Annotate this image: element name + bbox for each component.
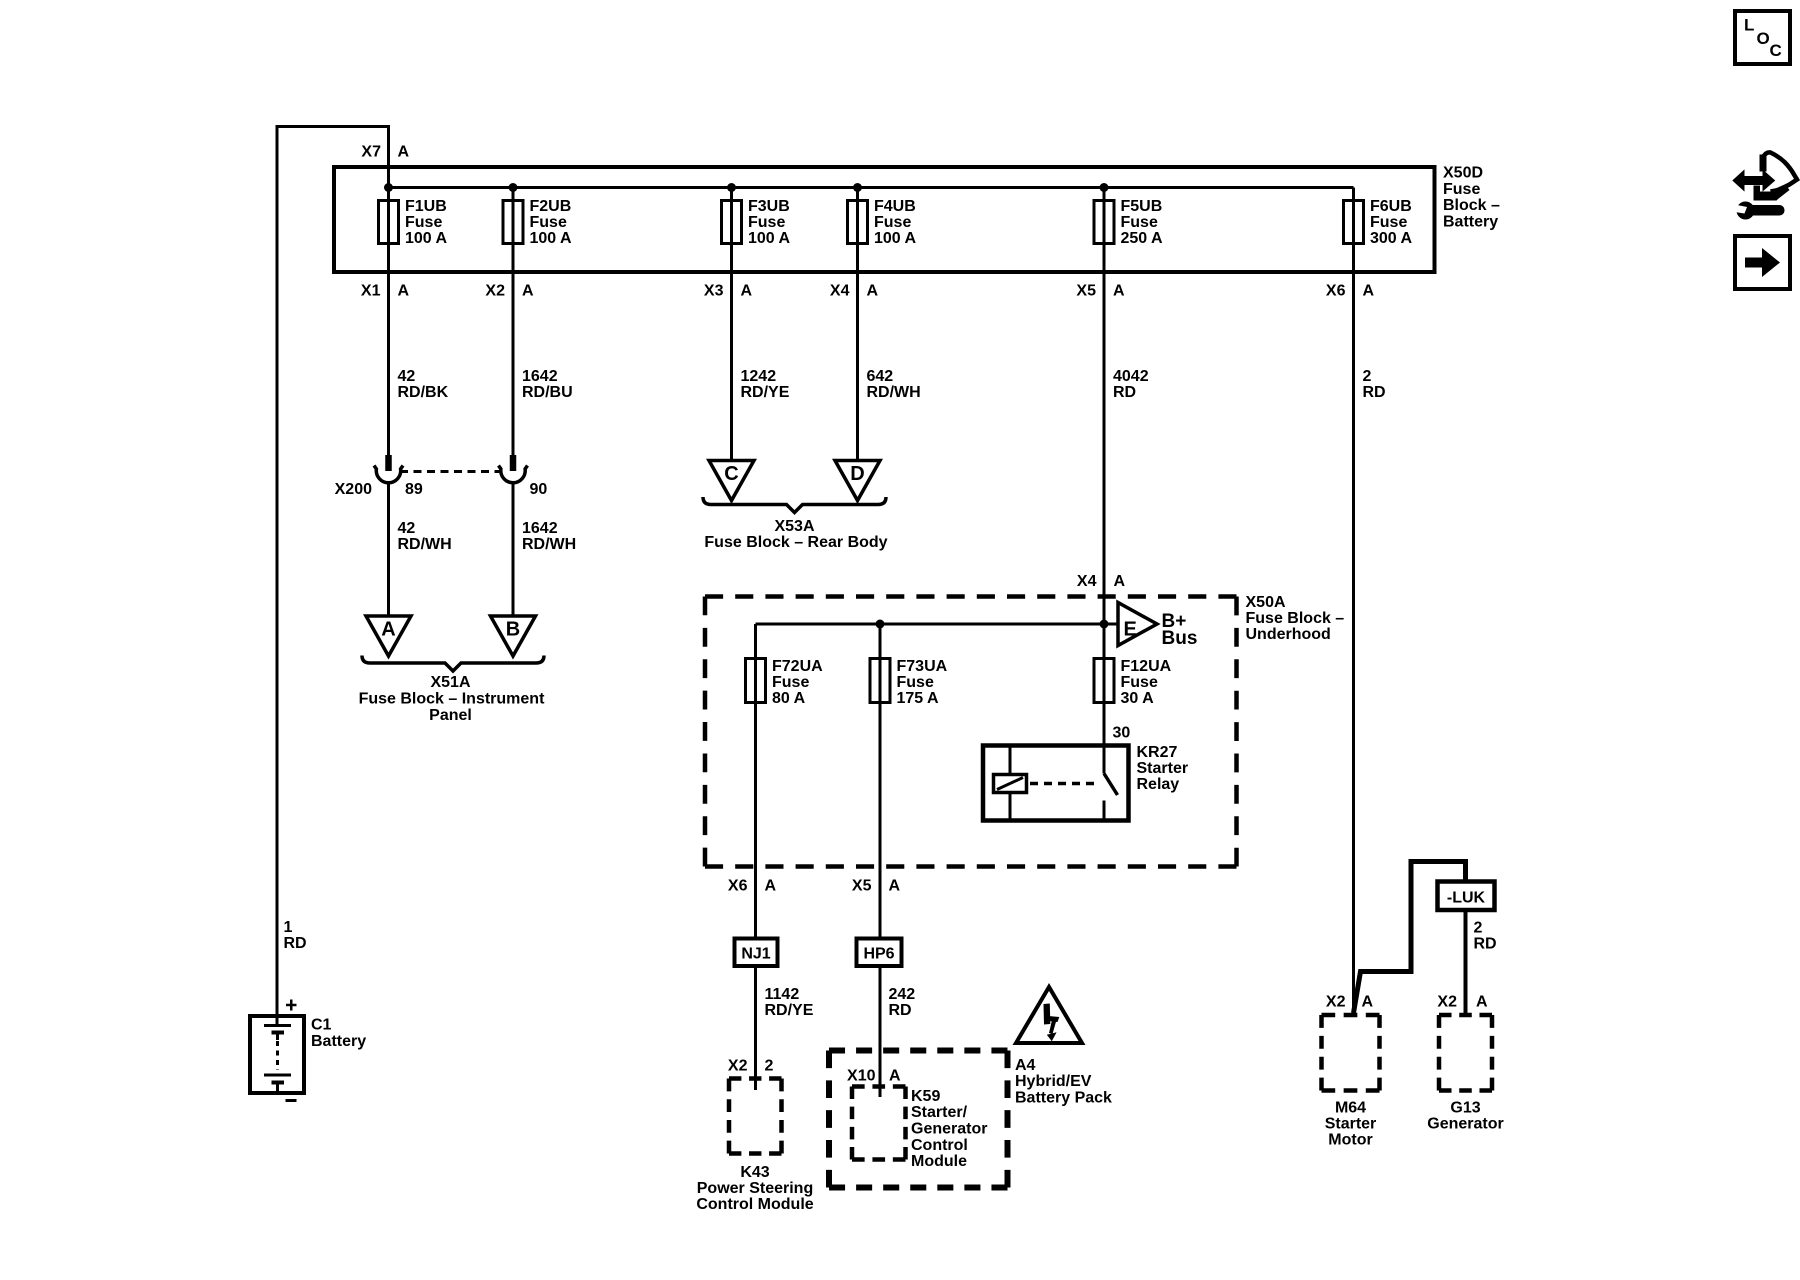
svg-text:Battery Pack: Battery Pack — [1015, 1090, 1112, 1107]
svg-text:E: E — [1124, 619, 1137, 641]
svg-text:Relay: Relay — [1137, 776, 1180, 793]
off-page triangle D — [835, 461, 880, 501]
off-page triangle C — [709, 461, 754, 501]
connector label X5 A below X50D — [1076, 283, 1125, 300]
label KR27 Starter Relay — [1137, 744, 1189, 793]
svg-text:42: 42 — [398, 520, 416, 537]
svg-text:NJ1: NJ1 — [741, 946, 770, 963]
fuse block X50A dashed outline — [705, 597, 1237, 867]
connector label X2 A above M64 — [1326, 994, 1374, 1011]
battery C1 cells — [264, 1026, 291, 1092]
fuse F5UB 250 A — [1094, 198, 1163, 247]
svg-text:X10: X10 — [847, 1068, 876, 1085]
svg-text:Fuse: Fuse — [897, 674, 934, 691]
connector label X10 A above K59 connector — [847, 1068, 901, 1085]
svg-text:642: 642 — [867, 368, 894, 385]
svg-text:RD/BU: RD/BU — [522, 384, 573, 401]
module K59 inner dashed box — [852, 1087, 906, 1160]
svg-text:Power Steering: Power Steering — [697, 1180, 813, 1197]
svg-text:1642: 1642 — [522, 520, 558, 537]
svg-text:100 A: 100 A — [405, 230, 448, 247]
fuse F3UB 100 A — [722, 198, 791, 247]
brace X51A — [362, 656, 544, 672]
wire battery feed: C1 + to X50D X7 — [277, 127, 389, 1026]
svg-text:F1UB: F1UB — [405, 198, 447, 215]
svg-text:RD: RD — [284, 935, 307, 952]
connector label X3 A below X50D — [704, 283, 753, 300]
svg-text:X6: X6 — [728, 878, 748, 895]
svg-text:1242: 1242 — [741, 368, 777, 385]
svg-text:K43: K43 — [740, 1164, 769, 1181]
svg-text:M64: M64 — [1335, 1100, 1366, 1117]
svg-text:O: O — [1757, 29, 1770, 48]
label A4 Hybrid/EV Battery Pack — [1015, 1057, 1112, 1107]
label X50D Fuse Block - Battery — [1443, 165, 1500, 231]
svg-text:Block –: Block – — [1443, 197, 1500, 214]
svg-text:X50A: X50A — [1246, 594, 1286, 611]
svg-text:-LUK: -LUK — [1447, 890, 1486, 907]
wire label 1142 RD/YE — [765, 986, 814, 1019]
svg-text:C1: C1 — [311, 1017, 332, 1034]
connector label X2 A below X50D — [485, 283, 534, 300]
label X200 89 90 — [335, 481, 548, 498]
icon LOC box — [1735, 11, 1790, 64]
brace X53A — [703, 497, 886, 513]
svg-text:L: L — [1744, 16, 1754, 35]
wire branch M64 to -LUK splice — [1354, 862, 1466, 1014]
svg-text:2: 2 — [765, 1058, 774, 1075]
svg-text:F6UB: F6UB — [1370, 198, 1412, 215]
svg-text:A: A — [398, 144, 410, 161]
module K43 dashed box — [729, 1079, 782, 1154]
svg-text:K59: K59 — [911, 1088, 940, 1105]
svg-text:Fuse: Fuse — [874, 214, 911, 231]
svg-text:Fuse: Fuse — [405, 214, 442, 231]
wire F6UB X6 output 2 RD to M64 starter motor — [1352, 188, 1355, 1017]
relay KR27 coil — [994, 748, 1027, 819]
svg-text:A: A — [1113, 283, 1125, 300]
svg-text:F2UB: F2UB — [530, 198, 572, 215]
svg-text:X2: X2 — [728, 1058, 748, 1075]
svg-text:100 A: 100 A — [874, 230, 917, 247]
svg-text:RD: RD — [889, 1002, 912, 1019]
svg-text:A: A — [1476, 994, 1488, 1011]
junction dot F5UB at bus — [1100, 183, 1109, 192]
svg-text:Panel: Panel — [429, 707, 472, 724]
wire F1UB X1 output 42 RD/BK — [387, 188, 390, 456]
svg-text:HP6: HP6 — [863, 946, 894, 963]
wire label 42 RD/WH — [398, 520, 452, 553]
svg-text:Fuse Block – Rear Body: Fuse Block – Rear Body — [704, 534, 887, 551]
junction dot F73UA at X50A bus — [876, 620, 885, 629]
svg-text:Fuse: Fuse — [1443, 181, 1480, 198]
wire F12UA drop to KR27 pin 30 — [1103, 624, 1106, 745]
wire F2UB X2 output 1642 RD/BU — [512, 188, 515, 456]
svg-text:X6: X6 — [1326, 283, 1346, 300]
connector label X6 A below X50D — [1326, 283, 1375, 300]
warning triangle A4 high voltage — [1016, 987, 1082, 1043]
fuse F72UA 80 A — [746, 658, 824, 707]
label K59 Starter/Generator Control Module — [911, 1088, 987, 1170]
svg-text:RD/WH: RD/WH — [398, 536, 452, 553]
connector label X5 A below X50A — [852, 878, 901, 895]
svg-text:89: 89 — [405, 481, 423, 498]
svg-text:F4UB: F4UB — [874, 198, 916, 215]
svg-text:A: A — [381, 619, 395, 641]
wire label 1642 RD/BU — [522, 368, 573, 401]
svg-text:D: D — [850, 463, 864, 485]
wire label 4042 RD — [1113, 368, 1149, 401]
wire label 1 RD — [284, 919, 307, 952]
connector label X1 A below X50D — [361, 283, 410, 300]
svg-text:X53A: X53A — [774, 518, 814, 535]
svg-text:242: 242 — [889, 986, 916, 1003]
label X51A Fuse Block - Instrument Panel — [359, 674, 545, 724]
svg-text:RD/WH: RD/WH — [522, 536, 576, 553]
svg-text:X5: X5 — [852, 878, 872, 895]
label X50A Fuse Block - Underhood — [1246, 594, 1345, 643]
svg-text:A4: A4 — [1015, 1057, 1036, 1074]
svg-text:A: A — [1362, 994, 1374, 1011]
svg-text:X2: X2 — [1437, 994, 1457, 1011]
fuse F2UB 100 A — [503, 198, 572, 247]
svg-text:Module: Module — [911, 1153, 967, 1170]
svg-text:Battery: Battery — [311, 1033, 366, 1050]
svg-text:Starter/: Starter/ — [911, 1104, 968, 1121]
svg-text:X4: X4 — [1077, 573, 1097, 590]
svg-text:X2: X2 — [485, 283, 505, 300]
fuse F73UA 175 A — [870, 658, 948, 707]
svg-text:Fuse: Fuse — [530, 214, 567, 231]
svg-text:X200: X200 — [335, 481, 372, 498]
svg-text:A: A — [889, 1068, 901, 1085]
svg-text:1: 1 — [284, 919, 293, 936]
svg-text:30 A: 30 A — [1121, 690, 1155, 707]
wire F5UB X5 output 4042 RD to X50A X4 — [1103, 188, 1106, 625]
svg-text:100 A: 100 A — [748, 230, 791, 247]
svg-text:A: A — [741, 283, 753, 300]
svg-text:42: 42 — [398, 368, 416, 385]
svg-text:Control: Control — [911, 1137, 968, 1154]
svg-text:C: C — [724, 463, 738, 485]
svg-text:Bus: Bus — [1162, 628, 1198, 649]
fuse block X50D outline — [334, 167, 1435, 272]
wire label 1642 RD/WH — [522, 520, 576, 553]
wire label 2 RD at G13 — [1474, 920, 1497, 953]
connector label X7 A — [361, 144, 409, 161]
label B+ Bus — [1162, 611, 1198, 649]
svg-text:B: B — [506, 619, 520, 641]
svg-text:Control Module: Control Module — [696, 1196, 813, 1213]
svg-text:RD/YE: RD/YE — [741, 384, 790, 401]
wire F72UA drop — [754, 624, 757, 939]
battery - terminal mark — [286, 1099, 297, 1102]
svg-text:X2: X2 — [1326, 994, 1346, 1011]
wire NJ1 to K43 X2 pin 2 — [754, 965, 757, 1090]
svg-text:4042: 4042 — [1113, 368, 1149, 385]
svg-text:Generator: Generator — [911, 1121, 987, 1138]
svg-text:A: A — [1363, 283, 1375, 300]
component -LUK box — [1438, 882, 1495, 911]
connector X200 pin 89 terminals — [374, 455, 403, 483]
connector label X4 A below X50D — [830, 283, 879, 300]
svg-text:F72UA: F72UA — [772, 658, 823, 675]
label C1 Battery — [311, 1017, 366, 1051]
wire label 1242 RD/YE — [741, 368, 790, 401]
fuse F4UB 100 A — [848, 198, 917, 247]
svg-text:Fuse: Fuse — [1370, 214, 1407, 231]
svg-text:Fuse Block – Instrument: Fuse Block – Instrument — [359, 691, 545, 708]
label K43 Power Steering Control Module — [696, 1164, 813, 1213]
wire label 242 RD — [889, 986, 916, 1019]
wire 1642 RD/WH X200-90 to triangle B — [512, 483, 515, 617]
svg-text:RD: RD — [1474, 936, 1497, 953]
junction dot F4UB at bus — [853, 183, 862, 192]
svg-text:X1: X1 — [361, 283, 381, 300]
off-page triangle A — [366, 616, 411, 656]
svg-text:RD/WH: RD/WH — [867, 384, 921, 401]
svg-text:A: A — [522, 283, 534, 300]
svg-text:250 A: 250 A — [1121, 230, 1164, 247]
relay KR27 switch contacts — [1104, 748, 1118, 819]
svg-text:1642: 1642 — [522, 368, 558, 385]
svg-text:Motor: Motor — [1328, 1132, 1372, 1149]
svg-text:100 A: 100 A — [530, 230, 573, 247]
svg-text:1142: 1142 — [765, 986, 800, 1003]
splice pack NJ1 — [735, 939, 778, 967]
connector label X6 A below X50A — [728, 878, 777, 895]
icon continuation arrow box — [1735, 236, 1790, 289]
connector X200 pin 90 terminals — [499, 455, 528, 483]
svg-text:30: 30 — [1113, 725, 1131, 742]
wire F4UB X4 output 642 RD/WH to triangle D — [856, 188, 859, 463]
junction dot F3UB at bus — [727, 183, 736, 192]
junction dot F2UB at bus — [509, 183, 518, 192]
svg-text:90: 90 — [530, 481, 548, 498]
battery C1 box — [250, 1016, 304, 1093]
wire HP6 to K59 X10 pin A — [879, 965, 882, 1097]
label G13 Generator — [1427, 1100, 1503, 1133]
svg-text:Starter: Starter — [1325, 1116, 1377, 1133]
B+ bus triangle E — [1118, 603, 1157, 646]
wire 42 RD/WH X200-89 to triangle A — [387, 483, 390, 617]
svg-text:X5: X5 — [1076, 283, 1096, 300]
svg-text:Generator: Generator — [1427, 1116, 1503, 1133]
svg-text:A: A — [867, 283, 879, 300]
wire label 642 RD/WH — [867, 368, 921, 401]
svg-text:X3: X3 — [704, 283, 724, 300]
svg-text:Underhood: Underhood — [1246, 626, 1331, 643]
svg-text:Fuse: Fuse — [1121, 214, 1158, 231]
off-page triangle B — [491, 616, 536, 656]
connector X200 dashed link — [400, 470, 502, 473]
battery + terminal mark — [286, 1000, 297, 1011]
svg-text:2: 2 — [1474, 920, 1483, 937]
svg-text:2: 2 — [1363, 368, 1372, 385]
svg-text:175 A: 175 A — [897, 690, 940, 707]
svg-text:X7: X7 — [361, 144, 381, 161]
wire bus inside X50D fuse block — [389, 186, 1354, 189]
svg-text:Fuse: Fuse — [1121, 674, 1158, 691]
svg-text:RD/YE: RD/YE — [765, 1002, 814, 1019]
svg-text:RD/BK: RD/BK — [398, 384, 449, 401]
wire X50A B+ bus — [756, 623, 1119, 626]
junction dot F1UB at bus — [384, 183, 393, 192]
svg-text:Fuse Block –: Fuse Block – — [1246, 610, 1345, 627]
wire F3UB X3 output 1242 RD/YE to triangle C — [730, 188, 733, 463]
svg-text:X50D: X50D — [1443, 165, 1483, 182]
generator G13 dashed box — [1439, 1015, 1492, 1091]
svg-text:300 A: 300 A — [1370, 230, 1413, 247]
fuse F6UB 300 A — [1344, 198, 1413, 247]
svg-text:G13: G13 — [1450, 1100, 1480, 1117]
svg-text:Hybrid/EV: Hybrid/EV — [1015, 1073, 1092, 1090]
relay KR27 box — [983, 746, 1129, 821]
connector label X2 A above G13 — [1437, 994, 1488, 1011]
icon diagnostic double arrow with wrench — [1732, 152, 1798, 219]
connector label X2 2 above K43 — [728, 1058, 774, 1075]
svg-text:X51A: X51A — [430, 674, 470, 691]
relay KR27 actuator dashed link — [1030, 782, 1097, 786]
fuse F1UB 100 A — [379, 198, 448, 247]
svg-text:A: A — [889, 878, 901, 895]
svg-text:KR27: KR27 — [1137, 744, 1178, 761]
svg-text:A: A — [1114, 573, 1126, 590]
connector label X4 A above X50A — [1077, 573, 1126, 590]
svg-text:Starter: Starter — [1137, 760, 1189, 777]
svg-text:F12UA: F12UA — [1121, 658, 1172, 675]
wire label 42 RD/BK — [398, 368, 449, 401]
svg-text:Fuse: Fuse — [748, 214, 785, 231]
junction dot F12UA / B+ bus node — [1100, 620, 1109, 629]
svg-text:X4: X4 — [830, 283, 850, 300]
svg-text:F5UB: F5UB — [1121, 198, 1163, 215]
motor M64 dashed box — [1322, 1015, 1380, 1091]
svg-text:F73UA: F73UA — [897, 658, 948, 675]
wire 2 RD -LUK to G13 generator X2 pin A — [1464, 909, 1468, 1017]
svg-text:RD: RD — [1363, 384, 1386, 401]
label X53A Fuse Block - Rear Body — [704, 518, 887, 551]
module K59 outer dashed box — [829, 1051, 1008, 1188]
fuse F12UA 30 A — [1094, 658, 1172, 707]
splice pack HP6 — [857, 939, 902, 967]
svg-text:80 A: 80 A — [772, 690, 806, 707]
svg-text:C: C — [1770, 41, 1782, 60]
svg-text:Fuse: Fuse — [772, 674, 809, 691]
wire F73UA drop — [879, 624, 882, 939]
label M64 Starter Motor — [1325, 1100, 1377, 1149]
svg-text:RD: RD — [1113, 384, 1136, 401]
svg-text:F3UB: F3UB — [748, 198, 790, 215]
svg-text:A: A — [765, 878, 777, 895]
svg-text:A: A — [398, 283, 410, 300]
wire label 2 RD — [1363, 368, 1386, 401]
svg-text:Battery: Battery — [1443, 214, 1498, 231]
